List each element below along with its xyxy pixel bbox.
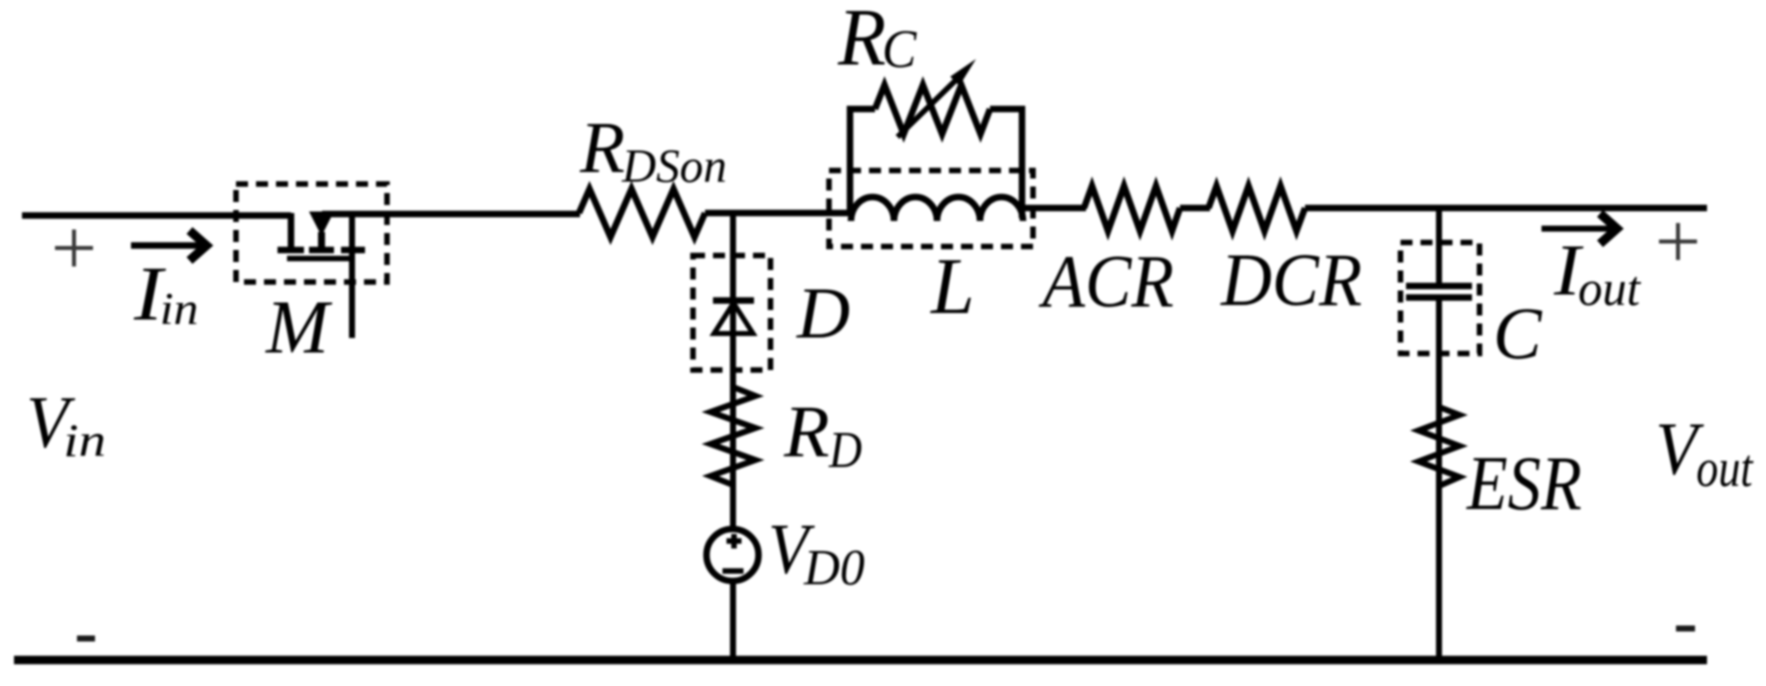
transistor M bulk arrow (filled triangle) [309, 212, 334, 237]
wire from M to R_DSon [322, 211, 580, 218]
transistor M left channel pad [278, 247, 305, 254]
svg-text:D: D [828, 421, 862, 478]
resistor R_C wiper arrow shaft [898, 79, 958, 137]
resistor R_C left riser [850, 109, 875, 216]
svg-text:R: R [783, 391, 830, 473]
resistor R_C right riser [990, 109, 1022, 218]
label R_C [837, 0, 886, 83]
wire diode branch lower vertical [730, 581, 736, 660]
label D [796, 272, 850, 354]
arrow I_in [131, 242, 202, 249]
svg-text:D0: D0 [803, 539, 865, 596]
inductor L arcs [851, 197, 1023, 221]
transistor M right channel pad [341, 247, 365, 254]
resistor R_C wiper arrow head [950, 59, 976, 86]
wire inductor to ACR [1021, 205, 1086, 212]
svg-text:R: R [837, 0, 886, 83]
transistor M gate bar [287, 256, 355, 262]
wire from R_DSon to inductor (through diode node) [705, 210, 852, 217]
label C [1493, 292, 1542, 375]
resistor R_C zigzag (variable) [875, 85, 990, 134]
wire capacitor branch upper [1436, 208, 1442, 286]
label V_out [1656, 407, 1705, 491]
svg-text:in: in [160, 285, 199, 334]
resistor R_D zigzag [711, 387, 756, 485]
minus sign output [1676, 626, 1695, 632]
label L [930, 242, 975, 331]
svg-text:D: D [796, 272, 850, 354]
wire top-left input segment [22, 212, 291, 219]
label DCR [1220, 238, 1362, 322]
wire ACR to DCR [1180, 205, 1210, 212]
plus sign output [1659, 223, 1697, 260]
label ESR [1466, 439, 1582, 526]
label R_DSon [579, 106, 625, 188]
svg-text:C: C [882, 20, 917, 79]
voltage source V_D0 minus mark [723, 568, 744, 574]
capacitor C bottom plate [1406, 294, 1472, 301]
wire capacitor branch lower [1436, 298, 1442, 661]
diode D cathode bar [713, 297, 754, 304]
minus sign input [77, 636, 95, 642]
transistor M dashed box [236, 184, 387, 282]
inductor L dashed box [829, 171, 1033, 247]
svg-text:DSon: DSon [621, 141, 727, 193]
svg-text:out: out [1696, 438, 1754, 498]
transistor M bulk stem [318, 232, 325, 250]
svg-text:ACR: ACR [1039, 239, 1174, 323]
label I_in [133, 251, 167, 337]
svg-text:ESR: ESR [1466, 439, 1582, 526]
label ACR [1039, 239, 1174, 323]
label V_in [26, 382, 75, 463]
label M [265, 285, 332, 370]
wire DCR to output (through capacitor node) [1305, 205, 1707, 212]
diode D triangle [714, 303, 753, 334]
svg-text:out: out [1578, 260, 1641, 316]
svg-text:DCR: DCR [1220, 238, 1362, 322]
transistor M gate lead down [349, 213, 355, 338]
voltage source V_D0 plus mark [727, 538, 742, 544]
capacitor C top plate [1406, 283, 1472, 290]
svg-text:C: C [1493, 292, 1542, 375]
resistor ACR zigzag [1084, 186, 1180, 231]
svg-text:R: R [579, 106, 625, 188]
capacitor C dashed box [1401, 243, 1480, 354]
voltage source V_D0 circle [707, 529, 759, 581]
diode D dashed box [693, 256, 771, 371]
resistor ESR zigzag [1419, 407, 1460, 486]
label I_out [1553, 229, 1584, 311]
resistor R_DSon zigzag [579, 189, 705, 237]
transistor M middle channel pad [309, 247, 334, 254]
svg-text:in: in [63, 415, 106, 466]
plus sign input [55, 230, 93, 267]
wire diode branch vertical [730, 214, 736, 529]
bottom rail [14, 656, 1707, 665]
transistor M drain stub [288, 213, 295, 247]
label V_D0 [768, 508, 815, 588]
svg-text:M: M [265, 285, 332, 370]
svg-text:L: L [930, 242, 975, 331]
arrow I_out [1542, 226, 1613, 232]
label R_D [783, 391, 830, 473]
resistor DCR zigzag [1209, 186, 1306, 231]
